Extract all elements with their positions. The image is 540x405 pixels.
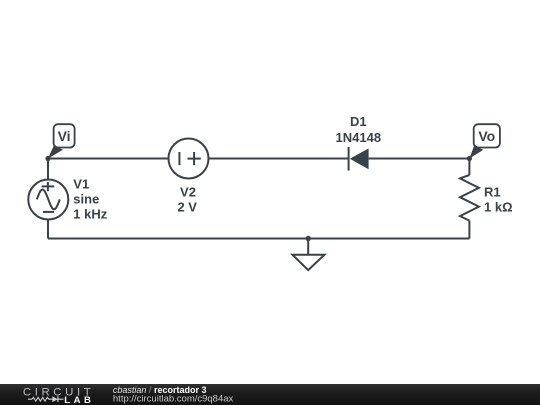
svg-text:2 V: 2 V (177, 200, 197, 215)
logo circuit squiggle wire (28, 397, 64, 401)
svg-text:1 kHz: 1 kHz (73, 207, 107, 222)
V1 minus sign (43, 211, 54, 213)
svg-text:LAB: LAB (64, 395, 94, 405)
V1 plus sign (42, 182, 55, 191)
diode D1 triangle (350, 148, 369, 169)
voltage source V2 (battery 2V) body (169, 139, 209, 179)
node Vi junction dot (45, 156, 50, 161)
node flag Vi box (54, 124, 75, 147)
diode D1 cathode bar (348, 147, 350, 171)
svg-text:V2: V2 (180, 184, 196, 199)
voltage source V1 (sine) body (28, 180, 68, 220)
svg-text:1 kΩ: 1 kΩ (484, 200, 513, 215)
wire node Vo to resistor R1 top (468, 159, 470, 176)
svg-text:Vo: Vo (478, 128, 495, 144)
wire resistor R1 bottom to bottom rail (468, 221, 470, 239)
node Vo junction dot (467, 156, 472, 161)
wire bottom rail (48, 238, 469, 240)
wire top rail: V2 to diode D1 (208, 158, 349, 160)
footer bar (0, 384, 540, 405)
svg-text:V1: V1 (73, 176, 89, 191)
svg-text:http://circuitlab.com/c9q84ax: http://circuitlab.com/c9q84ax (113, 393, 234, 404)
V2 minus terminal bar (178, 152, 180, 165)
wire V1 bottom to bottom rail (47, 219, 49, 239)
label D1 name and value (336, 114, 382, 145)
svg-text:D1: D1 (350, 114, 367, 129)
wire top rail: diode D1 to node Vo (369, 158, 470, 160)
svg-text:1N4148: 1N4148 (336, 130, 382, 145)
node flag Vo pointer (469, 146, 483, 159)
svg-text:Vi: Vi (58, 128, 71, 144)
node flag Vi pointer (48, 146, 63, 159)
wire left branch: node Vi to V1 top (47, 159, 49, 181)
ground triangle (292, 255, 324, 270)
node ground junction dot (306, 236, 311, 241)
node flag Vo box (474, 124, 500, 147)
wire top rail: node Vi to V2 (48, 158, 169, 160)
logo diode glyph (52, 396, 58, 402)
resistor R1 zigzag (460, 175, 479, 221)
svg-text:sine: sine (73, 192, 99, 207)
V1 sine wave (37, 190, 60, 210)
svg-text:R1: R1 (484, 184, 501, 199)
V2 plus sign (188, 152, 201, 165)
label V2 name and value (177, 184, 197, 214)
label R1 name and value (484, 184, 513, 214)
ground stem (307, 239, 309, 255)
label V1 name and value (73, 176, 107, 221)
